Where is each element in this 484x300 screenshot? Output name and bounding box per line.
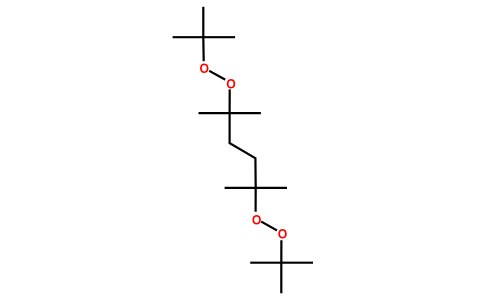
svg-text:O: O — [252, 212, 262, 228]
svg-text:O: O — [226, 76, 236, 92]
svg-text:O: O — [278, 226, 288, 242]
svg-text:O: O — [199, 60, 209, 76]
